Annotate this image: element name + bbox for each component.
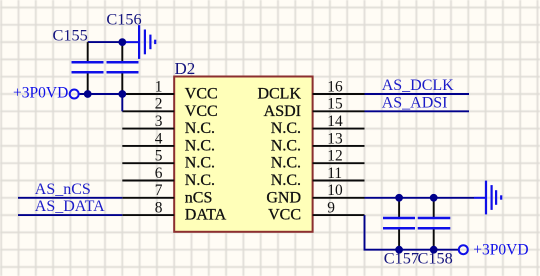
svg-text:15: 15 [327, 96, 343, 113]
wire GND rail right [365, 197, 475, 199]
svg-text:11: 11 [327, 165, 342, 182]
capacitor C156 [106, 10, 141, 95]
junction C156 bottom / pin1 [118, 90, 126, 98]
svg-text:AS_ADSI: AS_ADSI [382, 94, 448, 111]
svg-text:N.C.: N.C. [185, 137, 215, 154]
wire +3P0VD rail to pin1 [79, 93, 123, 95]
junction C158 bottom [430, 246, 438, 254]
svg-text:13: 13 [327, 130, 343, 147]
power port +3P0VD (left) [13, 85, 79, 102]
pin 13 [271, 130, 365, 154]
svg-text:14: 14 [327, 113, 343, 130]
pin 3 [122, 113, 215, 137]
junction C156 top [118, 38, 126, 46]
junction C157 bottom [395, 246, 403, 254]
svg-text:7: 7 [155, 182, 163, 199]
svg-text:9: 9 [327, 200, 335, 217]
pin 16 [257, 78, 364, 102]
svg-text:C155: C155 [53, 25, 88, 44]
pin 10 [266, 182, 364, 206]
svg-text:3: 3 [155, 113, 163, 130]
svg-text:AS_nCS: AS_nCS [35, 181, 91, 198]
svg-text:GND: GND [266, 189, 301, 206]
svg-text:AS_DCLK: AS_DCLK [382, 77, 454, 94]
wire AS_nCS [18, 197, 122, 199]
wire pin1 to pin2 vertical [121, 94, 123, 111]
pin 14 [271, 113, 365, 137]
svg-text:DCLK: DCLK [257, 86, 301, 103]
svg-text:10: 10 [327, 182, 343, 199]
pin 11 [271, 165, 365, 189]
svg-text:12: 12 [327, 148, 342, 165]
power port +3P0VD (right) [459, 242, 529, 259]
svg-text:C156: C156 [106, 10, 141, 29]
svg-text:+3P0VD: +3P0VD [13, 85, 68, 102]
svg-text:N.C.: N.C. [271, 155, 301, 172]
svg-text:5: 5 [155, 148, 163, 165]
junction C155 bottom [84, 90, 92, 98]
svg-text:N.C.: N.C. [185, 155, 215, 172]
svg-text:1: 1 [155, 78, 163, 95]
wire AS_DCLK [365, 93, 470, 95]
pin 1 [122, 78, 217, 102]
svg-text:D2: D2 [175, 59, 196, 78]
svg-text:VCC: VCC [268, 207, 301, 224]
pin 8 [122, 200, 226, 224]
pin 5 [122, 148, 215, 172]
svg-text:N.C.: N.C. [185, 172, 215, 189]
wire to ground top [122, 41, 139, 43]
wire cap top rail C155-C156 [88, 41, 123, 43]
capacitor C157 [383, 198, 419, 268]
wire to ground right [474, 197, 486, 199]
pin 2 [122, 96, 217, 120]
pin 6 [122, 165, 215, 189]
svg-text:N.C.: N.C. [271, 120, 301, 137]
svg-text:VCC: VCC [185, 103, 218, 120]
ground (top) [139, 25, 155, 59]
pin 4 [122, 130, 215, 154]
capacitor C158 [418, 198, 453, 268]
junction C157 top [395, 194, 403, 202]
ground (right) [486, 181, 501, 215]
pin 7 [122, 182, 212, 206]
wire AS_ADSI [365, 110, 470, 112]
svg-text:2: 2 [155, 96, 163, 113]
svg-text:4: 4 [155, 130, 163, 147]
svg-text:nCS: nCS [185, 189, 213, 206]
svg-text:VCC: VCC [185, 86, 218, 103]
svg-text:N.C.: N.C. [185, 120, 215, 137]
wire AS_DATA [18, 214, 122, 216]
junction C158 top [430, 194, 438, 202]
svg-text:DATA: DATA [185, 207, 227, 224]
svg-text:ASDI: ASDI [264, 103, 301, 120]
wire pin9 down [365, 215, 459, 250]
pin 9 [268, 200, 364, 224]
pin 12 [271, 148, 365, 172]
svg-text:8: 8 [155, 200, 163, 217]
IC D2 body [174, 77, 312, 232]
svg-text:+3P0VD: +3P0VD [473, 242, 528, 259]
svg-text:16: 16 [327, 78, 343, 95]
svg-text:N.C.: N.C. [271, 137, 301, 154]
pin 15 [264, 96, 365, 120]
svg-text:AS_DATA: AS_DATA [35, 198, 105, 215]
svg-text:N.C.: N.C. [271, 172, 301, 189]
capacitor C155 [53, 25, 104, 94]
svg-text:6: 6 [155, 165, 163, 182]
